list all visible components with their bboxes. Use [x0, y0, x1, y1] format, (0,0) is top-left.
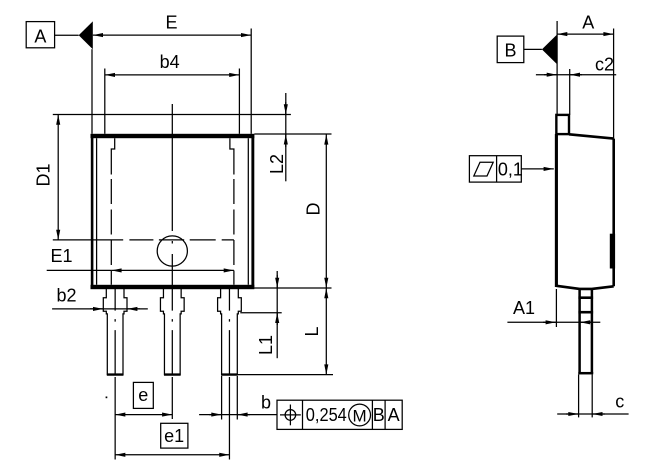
svg-text:L1: L1	[256, 335, 276, 355]
side view body top slant	[569, 134, 614, 138]
dimension b2	[52, 286, 148, 309]
front view body outline	[91, 134, 255, 289]
svg-text:0,254: 0,254	[306, 405, 347, 425]
side view lead bend lines	[578, 298, 593, 313]
lead 3 center line	[228, 289, 230, 375]
svg-text:B: B	[504, 41, 516, 61]
lead 1 center extension	[114, 377, 116, 460]
dimension A side view	[557, 13, 614, 34]
datum B frame	[497, 36, 524, 63]
top plane extension line	[53, 114, 291, 116]
dimension c2	[536, 54, 616, 74]
side view lead	[578, 289, 593, 374]
svg-text:D: D	[304, 203, 324, 216]
lead 1 outline	[103, 289, 127, 375]
side lead edge extensions	[579, 375, 593, 418]
side view right edge thick bar	[610, 234, 615, 269]
dimension A1	[507, 298, 600, 322]
dimension L1	[256, 271, 277, 358]
lead 3 outline	[218, 289, 242, 375]
dimension E1	[47, 246, 234, 270]
tab notch top-left	[111, 138, 114, 174]
svg-text:c: c	[615, 392, 624, 412]
A extension lines	[557, 21, 614, 139]
stray centerline dot	[106, 397, 108, 399]
dimension D	[304, 134, 327, 288]
side view body right edge	[612, 139, 615, 287]
svg-text:b2: b2	[57, 286, 77, 306]
dimension L	[302, 288, 326, 375]
svg-text:L2: L2	[267, 154, 287, 174]
lead 1 tip	[107, 373, 124, 375]
svg-text:0,1: 0,1	[498, 159, 523, 179]
lead 1 center line	[114, 289, 116, 375]
lead 2 tip	[164, 373, 181, 375]
svg-text:A: A	[388, 405, 400, 425]
svg-text:b4: b4	[160, 52, 180, 72]
modifier M circle	[349, 404, 371, 426]
horizontal center line	[53, 239, 234, 241]
tab hidden edge left (dashed)	[110, 179, 112, 285]
svg-text:A1: A1	[513, 298, 535, 318]
datum A frame	[26, 22, 54, 48]
A1 extension line	[555, 289, 557, 327]
datum B leader	[524, 48, 542, 50]
svg-text:B: B	[373, 405, 385, 425]
svg-text:A: A	[582, 13, 594, 33]
body bottom right extension line	[254, 287, 331, 289]
lead 3 center extension	[228, 377, 230, 460]
lead 2 center line	[171, 289, 173, 375]
lead shoulder extension line	[240, 312, 281, 314]
tab notch top-right	[230, 138, 234, 174]
c2 extension line	[569, 69, 571, 115]
side view tab	[556, 115, 569, 134]
svg-text:L: L	[302, 326, 322, 336]
tab hidden edge right (dashed)	[233, 179, 235, 285]
svg-text:e1: e1	[164, 426, 184, 446]
dimension b4	[105, 52, 240, 75]
datum A triangle	[79, 21, 93, 49]
lead 2 center extension	[171, 377, 173, 419]
feature control frame position	[277, 400, 402, 429]
dimension L2	[267, 93, 287, 181]
svg-text:c2: c2	[595, 54, 614, 74]
dimension E	[93, 13, 251, 35]
mounting hole circle	[157, 236, 187, 266]
dimension D1	[34, 115, 59, 240]
dimension e	[115, 382, 172, 414]
body top right extension line	[254, 133, 331, 135]
dimension b	[199, 393, 277, 415]
flatness feature control frame	[469, 156, 523, 182]
svg-text:M: M	[353, 407, 367, 426]
svg-text:D1: D1	[34, 163, 54, 186]
lead 2 outline	[160, 289, 184, 375]
E extension lines	[92, 29, 251, 134]
lead 3 edge extensions	[222, 376, 238, 420]
svg-text:E: E	[165, 13, 177, 33]
side view body bottom	[556, 286, 613, 289]
position symbol	[280, 405, 301, 426]
datum A leader	[55, 34, 79, 36]
svg-text:e: e	[138, 385, 148, 405]
lead tips extension line	[237, 374, 333, 376]
dimension c	[557, 392, 628, 414]
dimension e1	[115, 423, 229, 455]
front view tab side faces (thin inner lines)	[97, 138, 249, 285]
vertical center line	[171, 104, 173, 289]
datum B triangle	[542, 35, 557, 64]
svg-text:A: A	[34, 26, 46, 46]
svg-text:E1: E1	[51, 246, 73, 266]
lead 3 tip	[221, 373, 238, 375]
svg-text:b: b	[261, 393, 271, 413]
flatness leader	[521, 168, 554, 170]
b4 extension lines	[105, 69, 240, 134]
side view body left edge	[555, 134, 558, 287]
